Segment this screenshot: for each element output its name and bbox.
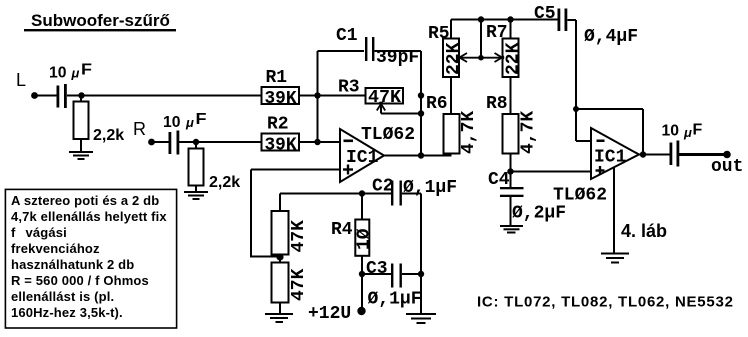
svg-text:out: out xyxy=(711,157,743,177)
svg-text:használhatunk 2 db: használhatunk 2 db xyxy=(11,257,134,272)
svg-text:Ø,1μF: Ø,1μF xyxy=(368,290,422,310)
svg-text:4,7k ellenállás helyett fix: 4,7k ellenállás helyett fix xyxy=(11,209,167,224)
svg-text:Ø,4μF: Ø,4μF xyxy=(584,27,638,47)
svg-text:R8: R8 xyxy=(486,94,508,114)
svg-text:160Hz-hez 3,5k-t).: 160Hz-hez 3,5k-t). xyxy=(11,305,123,320)
svg-text:4. láb: 4. láb xyxy=(621,221,667,241)
svg-text:F: F xyxy=(196,111,207,128)
svg-text:C5: C5 xyxy=(534,4,556,24)
svg-text:F: F xyxy=(693,122,703,139)
svg-text:A sztereo poti és a 2 db: A sztereo poti és a 2 db xyxy=(11,193,159,208)
svg-text:TLØ62: TLØ62 xyxy=(553,186,607,206)
svg-text:R3: R3 xyxy=(338,78,360,98)
svg-text:10: 10 xyxy=(662,123,680,140)
svg-text:μ: μ xyxy=(185,115,194,130)
svg-text:R: R xyxy=(133,119,146,139)
svg-text:ellenállást is (pl.: ellenállást is (pl. xyxy=(11,289,114,304)
svg-text:R1: R1 xyxy=(266,68,288,88)
svg-text:2,2k: 2,2k xyxy=(93,127,124,144)
svg-text:Ø,1μF: Ø,1μF xyxy=(403,178,457,198)
svg-text:μ: μ xyxy=(71,66,80,81)
svg-text:μ: μ xyxy=(683,125,692,140)
svg-text:R2: R2 xyxy=(267,115,289,135)
svg-text:F: F xyxy=(81,62,92,79)
svg-text:1Ø: 1Ø xyxy=(355,228,375,250)
svg-text:47K: 47K xyxy=(289,220,309,253)
svg-text:Ø,2μF: Ø,2μF xyxy=(512,204,566,224)
svg-text:4,7K: 4,7K xyxy=(459,111,479,154)
svg-text:4,7K: 4,7K xyxy=(519,111,539,154)
svg-text:2,2k: 2,2k xyxy=(209,174,240,191)
svg-text:vágási: vágási xyxy=(26,225,67,240)
svg-text:C1: C1 xyxy=(336,26,358,46)
svg-text:R6: R6 xyxy=(426,94,448,114)
svg-text:f: f xyxy=(11,225,16,240)
svg-text:47K: 47K xyxy=(368,88,401,108)
svg-text:C2: C2 xyxy=(372,177,394,197)
svg-text:10: 10 xyxy=(163,114,181,131)
svg-text:TLØ62: TLØ62 xyxy=(361,125,415,145)
svg-text:C3: C3 xyxy=(366,259,388,279)
svg-text:39K: 39K xyxy=(265,89,297,109)
svg-text:+12U: +12U xyxy=(308,304,351,324)
svg-text:39K: 39K xyxy=(265,136,297,156)
svg-text:R = 560 000 / f Ohmos: R = 560 000 / f Ohmos xyxy=(11,273,149,288)
svg-text:10: 10 xyxy=(49,65,67,82)
svg-text:R4: R4 xyxy=(331,220,353,240)
svg-text:frekvenciához: frekvenciához xyxy=(11,241,100,256)
svg-text:L: L xyxy=(16,70,26,90)
svg-text:IC1: IC1 xyxy=(594,148,627,168)
svg-text:IC1: IC1 xyxy=(346,148,379,168)
svg-text:IC: TL072, TL082, TL062, NE553: IC: TL072, TL082, TL062, NE5532 xyxy=(477,294,734,311)
svg-text:Subwoofer-szűrő: Subwoofer-szűrő xyxy=(31,11,170,30)
svg-text:22K: 22K xyxy=(504,42,524,75)
svg-text:47K: 47K xyxy=(289,268,309,301)
